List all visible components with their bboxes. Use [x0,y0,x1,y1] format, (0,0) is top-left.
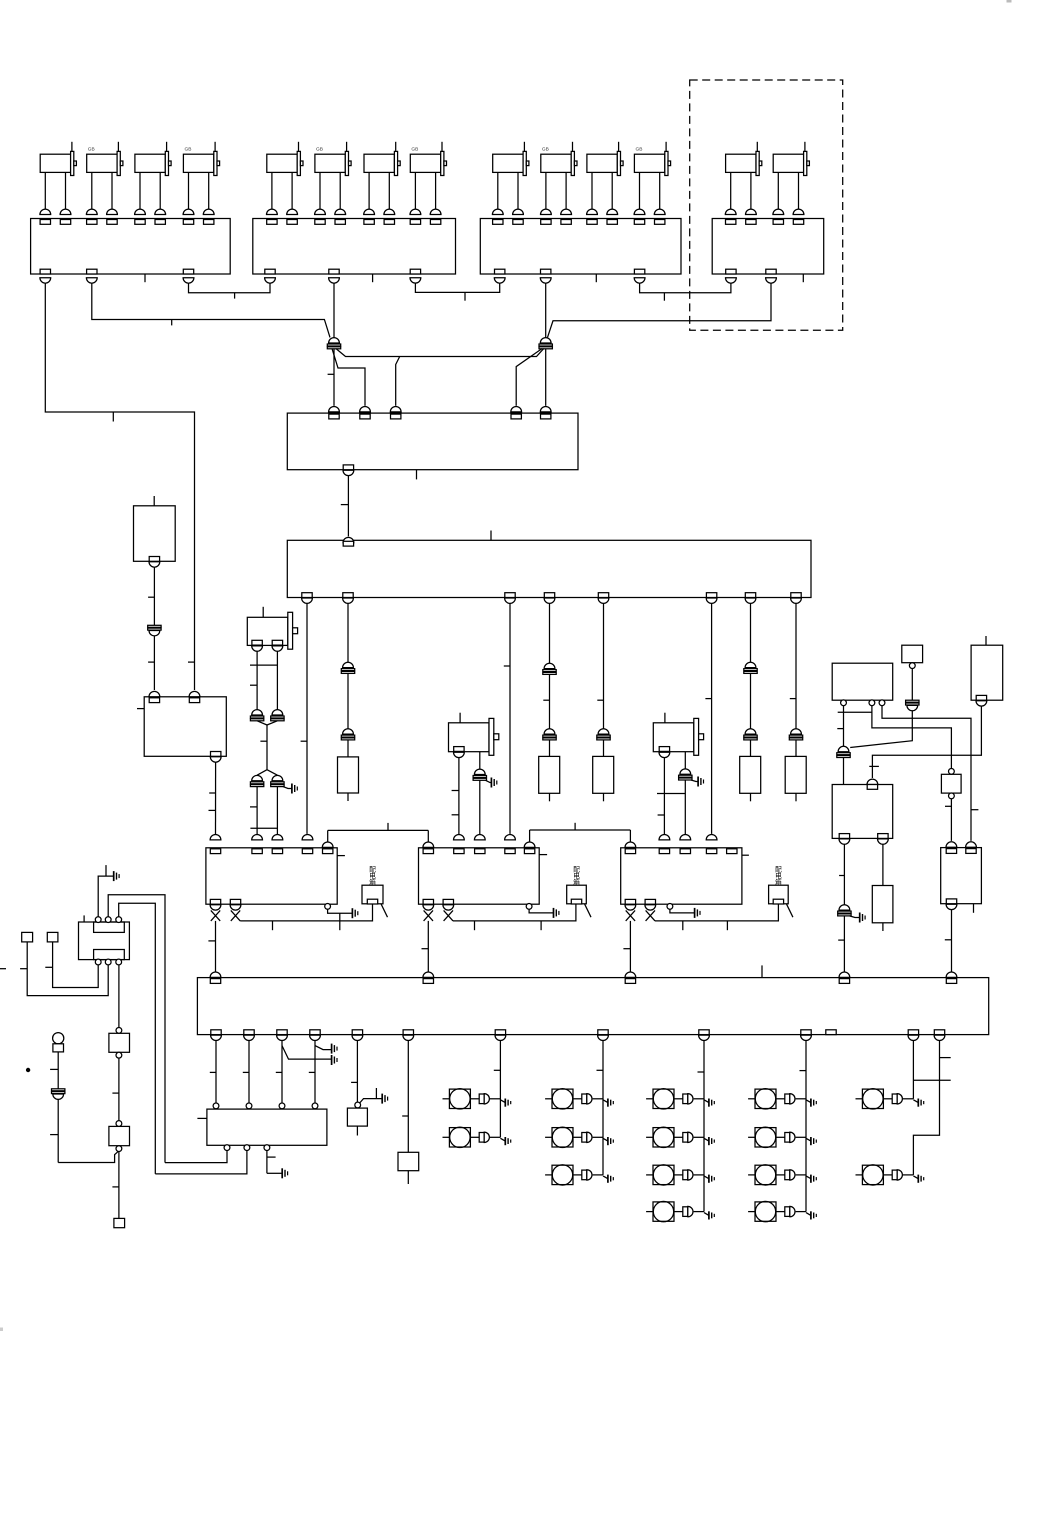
dome at B1 pin2 [454,835,465,840]
module S1 (upper-left small block) [134,506,176,562]
SW1 box [347,1108,367,1126]
dome at M2 pin1 [149,691,160,696]
motor M4 [183,142,220,215]
motor M7 [364,142,401,215]
wire G top1 to ground [98,865,119,917]
resistor R-LB [398,1152,419,1170]
E3 top stub [985,636,987,645]
lamp L3d [646,1201,714,1221]
link wire B-left pin5 to B1 pin1 [328,823,429,842]
S1 top lead [153,496,155,506]
fuse box block A3 (battery group 3) [480,219,681,275]
ground tap from F wire 3 [282,1046,337,1065]
dome at W top pin [343,537,354,542]
stub right of B-left [337,855,345,857]
ground from B2 circle pin [670,908,700,918]
stub below R-W7 [750,793,752,801]
wire TS1 to G bottom2 [20,942,108,996]
faint mark left margin [0,1328,3,1332]
ground at T1 lower connector [283,784,297,794]
inline connector on S1 wire [148,625,161,627]
dome at B2 pin2 [659,835,670,840]
stub below R-LB [407,1171,409,1184]
wire A2.2 to funnel F1 [333,283,335,337]
block W top pin [343,541,353,546]
stub right of B1 [539,854,547,856]
module E4 [832,785,893,839]
block F (lower-left connector box) [207,1109,327,1145]
dome at LB top pin5 [946,972,957,977]
stub below R-W8 [795,793,797,801]
T3 right leg with connector [679,752,692,835]
dome at E4 top pin [867,779,878,784]
lamp L3c [646,1165,714,1185]
svg-text:箱: 箱 [369,877,376,886]
T2 bottom pin [454,747,465,758]
stub below R-E4 [882,923,884,931]
drop wire to M pin3 [396,357,400,406]
tick on wire W.3 [504,665,510,667]
module Bb [109,1126,130,1145]
small module E5 [941,774,961,793]
stub below block A1 [144,274,146,282]
ground at T2 connector [486,778,497,788]
fuse box block A1 (battery group 1) [31,219,231,275]
wire Ba to Bb [112,1058,119,1121]
lamp L4b [748,1127,816,1147]
stub above block W [490,531,492,541]
LB bottom pins [211,1030,945,1035]
resistor R-E4 [872,886,893,923]
funnel connector F2 [540,338,551,343]
dome below M2 [210,757,221,762]
dome at LB top pin4 [839,972,850,977]
motor M1 [40,142,77,215]
dome at B1 pin5 [524,842,535,847]
switch SW1 circle [355,1102,361,1108]
resistor R-W4 [539,756,560,793]
wire E1.1 to funnel F3 [837,706,872,746]
lamp L2b [545,1127,613,1147]
wire LB to resistor R-LB [402,1041,408,1153]
block M top pins [329,414,551,419]
controller block B-left [206,848,337,904]
funnel connector F1 [329,338,340,343]
svg-text:GB: GB [88,147,95,153]
wire LB to F circle 3 [276,1041,282,1103]
wire A4.2 to funnel F2 [548,283,772,337]
dome at B2 pin3 [680,835,691,840]
dome at B2 pin4 [706,835,717,840]
fuse box block A2 (battery group 2) [253,219,456,275]
block M2 top pins [149,698,200,703]
dome at M pin4 [511,407,522,412]
block W bottom pins [302,593,802,604]
T1 bottom pins [252,640,283,651]
relay box E1 [832,663,893,700]
wire S1 to M2 pin1 [153,636,155,690]
motor M6 [315,142,352,215]
wire LB to F circle 4 [309,1041,315,1103]
B2 switch-row wire to K3 [655,904,778,930]
dome at M pin3 [390,406,401,411]
dome at E6 pin2 [966,842,977,847]
wire LB to F circle 1 [210,1041,216,1103]
funnel connector F3 [838,746,849,751]
junction block M (distribution) [287,413,578,470]
E1 bottom circle pins [841,700,885,706]
LB bottom domes [211,1035,945,1040]
column W.7: connector pair and resistor [744,603,757,756]
block A3 bottom pins [494,269,645,283]
svg-text:箱: 箱 [573,877,580,886]
resistor R-W5 [593,756,614,793]
dome at B1 pin3 [474,835,485,840]
stub above LB [761,965,763,977]
dome below S1 [149,562,160,567]
wire S1 down [153,567,155,625]
tick on S1 wire [148,596,154,598]
stub below block A3 [595,274,597,282]
lamp L4d [748,1201,816,1221]
motor M10 [541,142,578,215]
controller block B1 [419,848,540,904]
S1 bottom pin [149,557,159,562]
block A1 top pins [40,220,214,225]
B2 bottom pins [625,899,656,910]
dot marker [26,1068,30,1072]
bowtie below B-left pin1 [211,910,220,921]
block A4 top pins [726,220,804,225]
G top circle pins [95,917,121,923]
column W.5: connector and resistor [597,603,610,756]
tick on wire A1.1 [112,412,114,422]
dome at B-left pin5 [322,842,333,847]
stub on link A3-A4 [663,293,665,301]
wire E2 with connector to F3 [850,669,919,748]
connector housing G inner rects [94,922,125,960]
wire vertical to F bottom circle1 [165,1151,227,1163]
motor M11 [587,142,624,215]
faint mark top right [1007,0,1012,3]
stub below R-W4 [549,793,551,801]
ticks on M2-Bleft wire [209,793,216,810]
relay T2 body [449,713,499,756]
main harness block W [287,540,811,597]
tick on wire W.1 [301,740,307,742]
dome at B-left pin1 [210,835,221,840]
stub left of F [197,1117,207,1119]
link wire A2.3 - A3.1 [415,283,499,292]
tick on wire W.6 [705,698,711,700]
B-left top pins [210,849,333,854]
block M2 bottom pin [211,752,221,757]
LB top pins [210,979,956,984]
lamp L2a [545,1089,613,1109]
module M2 (left mid block) [144,697,226,757]
wire G bottom3 to Ba [118,965,120,1028]
lamp L5a [856,1089,924,1109]
dome at B1 pin4 [505,835,516,840]
circle pin on B2 bottom [667,904,673,910]
tick on wire A1.1 lower [188,661,195,663]
wire E1.3 to E6 pin2 [882,706,978,841]
inline connector on lamp wire [52,1089,65,1091]
lamp L1b [443,1127,511,1147]
indicator lamp circle [53,1033,64,1044]
dome at M pin2 [360,406,371,411]
svg-text:GB: GB [316,147,323,153]
lamp L2c [545,1165,613,1185]
T1 legs upper [250,651,277,709]
wire E5 to E6 pin1 [945,799,951,841]
stub below R-W5 [603,793,605,801]
small module E2 [902,645,923,663]
terminal square TS1 [22,932,33,942]
stub below E6 right [973,904,975,913]
dome at LB top pin2 [423,972,434,977]
wire E4.2 to resistor [882,844,884,885]
lamp L1a [443,1089,511,1109]
T2 left leg [452,758,459,835]
wire lamp down [50,1052,58,1089]
relay T1 body [247,607,297,649]
wire F3 to E4 top edge [843,758,845,785]
switch box K2 [567,885,591,917]
svg-text:箱: 箱 [775,877,782,886]
fuse box block A4 (battery group 4, optional) [712,219,824,275]
lamp L3b [646,1127,714,1147]
lamp L4a [748,1089,816,1109]
dome below E3 [976,701,987,706]
wire A1.1 to M2 pin2 [45,283,194,690]
dashed optional-equipment boundary [690,80,843,330]
stub on link A2-A3 [464,292,466,300]
block M bottom pin [343,465,353,470]
T1 connector pair upper [250,710,284,721]
link wire B1 pin5 to B2 pin1 [530,823,631,842]
F top circle pins [213,1103,318,1109]
E3 bottom pin [976,695,986,700]
column W.4: connector pair and resistor [543,603,556,756]
B-left bottom pins [210,899,241,910]
T1 merged wire [257,721,277,775]
E4 top pin [867,785,877,790]
wire E1.2 to E5 [872,706,952,769]
dome at B2 pin1 [625,842,636,847]
bowtie below B1 pin2 [444,910,453,921]
wire W.3 to B1 pin4 [509,603,511,834]
module Ba [109,1033,130,1052]
resistor R-W7 [740,756,761,793]
controller block E6 [941,848,982,904]
wire M to W [347,476,349,537]
lamp group 2 feed wire [597,1041,604,1175]
edge tick at left margin [0,968,6,970]
lamp group 1 feed wire [494,1041,501,1138]
svg-text:GB: GB [542,147,549,153]
bowtie below B1 pin1 [424,910,433,921]
bowtie below B-left pin2 [231,910,240,921]
motor M3 [135,142,172,215]
G bottom circle pins [95,959,121,965]
motor M12 [634,142,671,215]
G outer rect (drawn above) [79,922,130,960]
E2 circle pin [909,663,915,669]
wire LB to switch SW1 [351,1041,357,1103]
block A1 bottom pins [40,269,194,283]
motor M2 [86,142,123,215]
dome at B-left pin4 [302,835,313,840]
block A2 bottom pins [265,269,421,283]
motor M9 [492,142,528,215]
column W.8: connector and resistor [789,603,802,756]
stub below SW1 [356,1126,358,1135]
wire lamp to junction [50,1099,119,1162]
ground at T3 connector [691,777,704,787]
lamp L3a [646,1089,714,1109]
lamp group 4 feed wire [800,1041,807,1212]
T1 connector pair lower [250,775,284,786]
wire TS2 to G bottom1 [45,942,98,988]
wire B2 to LB pin3 [623,921,630,972]
bowtie below B2 pin1 [626,910,635,921]
wire E4.1 with connector and ground [838,844,865,972]
wire A3.2 to funnel F2 [545,283,547,337]
column W.2: connector pair and resistor [341,603,354,757]
circle pin on B1 bottom [526,904,532,910]
stub left of M2 [137,708,144,710]
stub below block A4 [802,274,804,282]
svg-text:GB: GB [636,147,643,153]
motor M14 [773,142,809,215]
stub right of B2 [742,854,749,856]
T3 left leg [657,758,685,835]
dome at M pin5 [540,406,551,411]
B-left switch-row wire to K1 [240,904,372,930]
wire F1 to M pin1 [333,349,335,406]
wire B1 to LB pin2 [422,921,429,972]
dome at E6 pin1 [946,842,957,847]
SW1 lever and ground [360,1088,388,1104]
motor M8 [410,142,447,215]
wire E6 to LB pin5 [945,904,957,972]
ground from B1 circle pin [529,908,559,918]
wire vertical to F bottom circle2 [155,1151,247,1174]
wire F circle3 to ground [267,1151,288,1179]
lamp group 5 feed wires [913,1041,950,1175]
motor M13 [725,142,762,215]
module E3 [971,645,1003,700]
dome at LB top pin3 [625,972,636,977]
E5 circle pins [949,769,955,799]
wire Bb to terminal [112,1152,119,1219]
lamp L5b [856,1165,924,1185]
svg-text:GB: GB [411,147,418,153]
wire W.6 to B2 pin4 [711,603,713,834]
stub below block M [416,470,418,480]
switch box K3 [769,885,793,917]
svg-text:GB: GB [185,147,192,153]
block A3 top pins [493,220,665,225]
wire LB to F circle 2 [243,1041,249,1103]
tick on S1-M2 wire [148,661,154,663]
switch box K1 [362,885,388,917]
domes at B-left pins 2,3 [252,835,283,840]
B1 switch-row wire to K2 [453,904,576,930]
stub above G [83,915,85,922]
wire M2 to B-left pin1 [215,762,217,834]
dome at B1 pin1 [423,842,434,847]
lamp group 3 feed wire [698,1041,705,1212]
terminal square TS3 [114,1218,125,1227]
controller block B2 [621,848,742,904]
ground from B-left circle pin [328,908,358,918]
wire G top2 long vertical [108,895,165,1163]
dome at M pin1 [329,407,340,412]
bowtie below B2 pin2 [646,910,655,921]
stub below R-W2 [347,793,349,801]
lamp L4c [748,1165,816,1185]
wire W.1 to B-left pin4 [306,603,308,834]
wire A1.2 to funnel F1 [92,283,330,337]
tick on M-W wire [341,504,349,506]
block A4 bottom pins [726,269,777,283]
long bottom bus block LB [197,978,988,1035]
T2 right leg with connector [473,752,486,835]
link wire A3.3 - A4.1 [640,283,731,293]
dome at M2 pin2 [189,691,200,696]
tick on F1-M wire [328,373,334,375]
wire G top3 long vertical [119,903,156,1174]
B1 top pins [423,849,535,854]
stub below block A2 [372,274,374,282]
dome at LB top pin1 [210,972,221,977]
bus wire F1 - F2 [336,349,544,357]
E6 bottom pin [946,899,956,904]
dome below M pin [343,470,354,475]
wire F1 to M pin2 [332,349,365,406]
motor M5 [267,142,304,215]
E6 top pins [946,849,976,854]
F bottom circle pins [224,1145,270,1151]
B2 top pins [625,849,737,854]
T3 bottom pin [659,747,670,758]
wire E3 to E4 top pin [869,706,981,778]
resistor R-W8 [785,756,806,793]
relay T3 body [653,713,703,756]
resistor R-W2 [338,757,359,793]
block A2 top pins [267,220,441,225]
B1 bottom pins [423,899,454,910]
lamp terminal square [53,1044,64,1052]
wire B-left to LB pin1 [208,921,215,972]
ground tap from F wire 4 [315,1044,337,1054]
stub on link A1-A2 [234,293,236,299]
Bb circle pins [116,1121,122,1152]
E4 bottom pins [839,834,888,845]
Ba circle pins [116,1028,122,1059]
wire F2 to M pin4 [516,349,542,406]
stub on wire A1.2 [171,320,173,326]
wire F2 to M pin5 [545,349,547,406]
circle pin on B-left bottom [325,904,331,910]
terminal square TS2 [47,932,58,942]
link wire A1.3 - A2.1 [189,283,271,293]
T1 legs lower [250,787,277,835]
